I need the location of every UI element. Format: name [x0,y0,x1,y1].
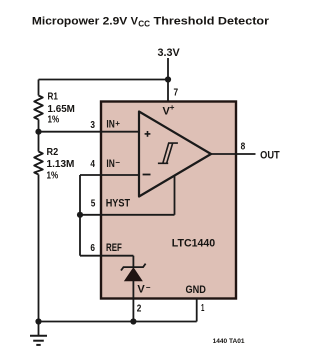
node OUT label [260,149,280,161]
pin number 1 [201,302,204,314]
hysteresis symbol [158,143,178,163]
pin number 8 [241,140,246,152]
wire feedback vertical pin4-pin5-pin6 [79,175,81,256]
wire output pin 8 [211,153,256,155]
svg-text:V: V [137,284,145,296]
IC U1 LTC1440 body [101,102,236,299]
svg-text:1%: 1% [47,169,59,181]
pin number 7 [174,86,179,98]
wire left rail upper segment [38,80,40,96]
svg-text:HYST: HYST [106,197,131,209]
svg-text:R2: R2 [47,146,59,158]
zener reference diode D1 [121,256,146,322]
pin label IN+ [106,119,120,131]
pin number 3 [90,119,95,131]
resistor R1 [34,96,43,120]
wire rail between R1 and R2 [38,120,40,152]
label R2 value 1.13M 1% [47,146,75,181]
node 3.3V supply label [158,47,181,59]
junction top at 3.3V [165,76,171,82]
svg-text:IN: IN [106,158,114,170]
wire pin 4 to inverting input [80,174,139,176]
pin label GND [186,284,206,296]
pin number 2 [137,303,142,315]
svg-text:+: + [170,103,175,112]
svg-text:3.3V: 3.3V [158,47,181,59]
pin label IN- [106,158,120,170]
pin label HYST [106,197,131,209]
svg-text:1440 TA01: 1440 TA01 [213,339,246,345]
svg-text:+: + [115,119,120,128]
junction HYST node [77,212,83,218]
pin number 5 [91,197,96,209]
pin label V+ [163,103,175,118]
svg-text:4: 4 [90,158,95,170]
comparator - input mark [143,174,151,176]
svg-text:IN: IN [106,119,114,131]
svg-text:8: 8 [241,140,246,152]
svg-text:LTC1440: LTC1440 [172,237,215,249]
pin number 4 [90,158,95,170]
part number label LTC1440 [172,237,215,249]
wire bottom ground bus [39,321,197,323]
comparator + input mark [145,131,151,137]
wire pin 5 HYST [80,175,175,215]
label R1 value 1.65M 1% [48,90,76,125]
wire pin 6 REF [80,255,133,257]
wire top horizontal 3.3V to left rail [39,79,169,81]
svg-text:GND: GND [186,284,206,296]
svg-text:2: 2 [137,303,142,315]
wire divider node to pin 3 [39,131,140,133]
svg-text:Threshold Detector: Threshold Detector [154,15,270,27]
svg-text:−: − [146,283,151,292]
svg-text:1: 1 [201,302,204,314]
svg-text:6: 6 [90,242,95,254]
ground [30,322,47,345]
op-amp comparator triangle [139,112,211,197]
svg-text:−: − [115,158,120,167]
pin label REF [106,242,122,254]
svg-text:3: 3 [90,119,95,131]
svg-text:R1: R1 [48,90,59,102]
svg-text:7: 7 [174,86,179,98]
svg-text:REF: REF [106,242,122,254]
junction V- node [130,318,136,324]
note 1440 TA01 [213,339,246,345]
pin number 6 [90,242,95,254]
title [32,15,270,28]
junction divider node [35,129,41,135]
svg-text:1%: 1% [48,114,60,126]
svg-text:1.13M: 1.13M [47,158,75,170]
resistor R2 [34,152,43,175]
svg-text:CC: CC [138,19,150,29]
svg-text:5: 5 [91,197,96,209]
junction ground node [35,318,41,324]
wire pin 1 GND down [196,299,198,322]
svg-text:OUT: OUT [260,149,280,161]
wire 3.3V stub to pin 7 [167,58,169,101]
pin label V- [137,283,150,296]
wire left rail lower segment to ground [38,175,40,322]
svg-text:Micropower 2.9V: Micropower 2.9V [32,15,128,27]
